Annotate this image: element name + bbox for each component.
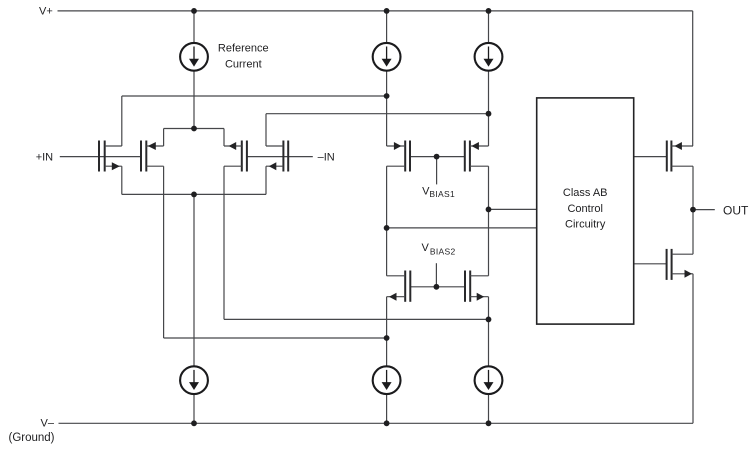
current source I1 reference [180, 43, 208, 71]
wire V+ to reference current source [193, 11, 195, 43]
wire Q1 drain up [121, 96, 123, 146]
current source I6 [475, 366, 503, 394]
svg-text:Current: Current [225, 58, 262, 70]
current source I2 [373, 43, 401, 71]
wire node D to Class AB box lower input [387, 227, 537, 229]
wire Class AB box to output NMOS gate [634, 263, 667, 265]
wire current source I5 to ground rail [386, 394, 388, 423]
transistor Q1 input NMOS +IN [99, 141, 122, 172]
svg-text:+IN: +IN [36, 151, 53, 163]
wire VBIAS1 gate bus [410, 156, 465, 158]
wire reference current source to input PMOS pair sources [193, 70, 195, 129]
svg-text:V: V [422, 242, 430, 254]
wire Q3 source up to tail node [223, 129, 225, 147]
wire Q2 drain to current source I5 node [164, 337, 387, 339]
node VBIAS2 gate [434, 284, 440, 290]
node Class AB lower input [384, 225, 390, 231]
wire OUT node to OUT terminal [693, 209, 715, 211]
wire node Q1 drain to node A [122, 95, 387, 97]
transistor Q2 input PMOS +IN [141, 141, 164, 172]
wire +IN to gates of Q1 Q2 [60, 156, 141, 158]
svg-text:Circuitry: Circuitry [565, 219, 606, 231]
transistor Q7 second stage left VBIAS2 [387, 271, 411, 302]
current source I5 [373, 366, 401, 394]
transistor Q6 second stage right VBIAS1 [465, 141, 489, 172]
Class AB control block U1 [537, 98, 634, 324]
node VBIAS1 gate [434, 154, 440, 160]
node V+ rail junction B [384, 8, 390, 14]
svg-text:Reference: Reference [218, 43, 269, 55]
wire Class AB box to output PMOS gate [634, 156, 667, 158]
wire V+ to current source I2 [386, 11, 388, 43]
wire Q4 source down [265, 166, 267, 194]
node Q4 drain join [486, 111, 492, 117]
wire Q3 drain to current source I6 node [224, 318, 489, 320]
label Reference Current [218, 43, 269, 71]
wire OUT node down to output NMOS drain [692, 210, 694, 255]
wire current source I3 down to Q6 [488, 70, 490, 146]
wire Q8 source down to current source I6 [488, 297, 490, 366]
svg-text:Control: Control [567, 203, 602, 215]
transistor Q10 output NMOS [667, 249, 693, 280]
svg-text:V+: V+ [39, 6, 53, 18]
wire V+ rail down to output PMOS drain [692, 11, 694, 146]
svg-text:Class AB: Class AB [563, 187, 608, 199]
current source I4 [180, 366, 208, 394]
node Q2 drain join [384, 335, 390, 341]
wire VBIAS2 gate bus [410, 286, 465, 288]
node ground rail junction E [384, 420, 390, 426]
wire -IN to gates of Q3 Q4 [247, 156, 313, 158]
wire Q7 source down to current source I5 [386, 297, 388, 366]
wire VBIAS1 stub [436, 157, 438, 185]
label VBIAS1 [422, 185, 455, 199]
svg-text:V–: V– [41, 418, 55, 430]
node NMOS pair tail [191, 192, 197, 198]
wire Q4 drain up [265, 114, 267, 146]
label VBIAS2 [422, 242, 456, 256]
node Q3 drain join [486, 317, 492, 323]
node PMOS pair tail [191, 126, 197, 132]
wire Q1 source down [121, 166, 123, 194]
wire NMOS pair tail bus [122, 193, 266, 195]
transistor Q3 input PMOS -IN [224, 141, 247, 172]
wire Q4 drain to node B [266, 113, 489, 115]
wire Q6 source to Q8 drain [488, 166, 490, 276]
wire current source I4 to ground rail [193, 394, 195, 423]
wire NMOS tail to current source I4 [193, 194, 195, 366]
transistor Q9 output PMOS [667, 141, 693, 172]
transistor Q5 second stage left VBIAS1 [387, 141, 410, 172]
wire current source I2 down to Q5 [386, 70, 388, 146]
ground rail V- [59, 422, 694, 424]
wire output PMOS source down to OUT node [692, 166, 694, 209]
node V+ rail junction A [191, 8, 197, 14]
transistor Q4 input NMOS -IN [266, 141, 288, 172]
node Class AB upper input [486, 207, 492, 213]
power rail V+ [58, 10, 693, 12]
wire output NMOS source down to ground rail [692, 274, 694, 424]
svg-text:BIAS1: BIAS1 [429, 189, 455, 199]
svg-text:(Ground): (Ground) [9, 432, 55, 444]
node ground rail junction D [191, 420, 197, 426]
node V+ rail junction C [486, 8, 492, 14]
wire node C to Class AB box upper input [489, 208, 537, 210]
wire Q5 source to Q7 drain [386, 166, 388, 276]
wire VBIAS2 stub [435, 263, 437, 287]
wire PMOS pair tail bridge [164, 128, 224, 130]
wire Q3 drain down [223, 166, 225, 319]
wire current source I6 to ground rail [488, 394, 490, 423]
transistor Q8 second stage right VBIAS2 [465, 271, 489, 302]
svg-text:OUT: OUT [723, 204, 749, 218]
node Q1 drain join [384, 93, 390, 99]
current source I3 [475, 43, 503, 71]
wire Q2 source up to tail node [163, 129, 165, 147]
svg-text:–IN: –IN [318, 151, 335, 163]
wire Q2 drain down [163, 166, 165, 338]
svg-text:BIAS2: BIAS2 [430, 246, 456, 256]
node OUT [690, 207, 696, 213]
node ground rail junction F [486, 420, 492, 426]
wire V+ to current source I3 [488, 11, 490, 43]
